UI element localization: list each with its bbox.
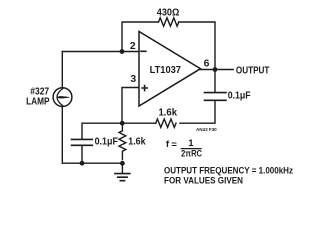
svg-text:2πRC: 2πRC	[181, 148, 202, 159]
lamp filament arc	[57, 89, 63, 106]
svg-text:LAMP: LAMP	[26, 97, 50, 108]
capacitor C2 0.1uF right plates	[205, 93, 227, 101]
wire node A to left cap	[82, 123, 122, 139]
ground bars	[115, 174, 130, 181]
resistor R 1.6k vertical zigzag	[119, 123, 126, 159]
lamp filament lens	[57, 96, 69, 98]
resistor R 1.6k horizontal zigzag	[156, 119, 176, 127]
wire feedback right to output node	[179, 22, 215, 67]
capacitor C1 0.1uF left plates	[72, 139, 93, 145]
wire pin3 stub	[122, 88, 139, 124]
svg-text:1.6k: 1.6k	[128, 136, 145, 147]
wire feedback left vertical	[122, 22, 159, 52]
svg-text:FOR VALUES GIVEN: FOR VALUES GIVEN	[164, 176, 243, 186]
svg-text:2: 2	[130, 41, 136, 52]
ground stub	[121, 163, 123, 173]
op-amp plus sign	[141, 85, 148, 92]
wire pin2 input	[62, 51, 139, 53]
svg-text:1.6k: 1.6k	[159, 107, 178, 118]
wire output node to right cap	[214, 70, 216, 92]
formula fraction bar	[181, 148, 202, 150]
svg-text:6: 6	[204, 58, 210, 69]
lamp #327 circle	[53, 88, 72, 107]
junction dot output node	[213, 67, 218, 72]
junction dot left cap bottom	[80, 161, 85, 166]
svg-text:LT1037: LT1037	[150, 65, 182, 76]
op-amp U1 triangle	[139, 32, 201, 107]
svg-text:#327: #327	[30, 86, 49, 97]
wire lamp bottom	[61, 106, 63, 163]
wire horizontal resistor to right cap	[180, 101, 215, 123]
svg-text:AN43 F30: AN43 F30	[196, 127, 217, 132]
resistor R 430 zigzag	[159, 18, 179, 26]
svg-text:3: 3	[130, 74, 136, 85]
junction dot pin2 node	[120, 49, 125, 54]
wire lamp top	[61, 52, 63, 88]
svg-text:OUTPUT: OUTPUT	[236, 66, 270, 77]
wire node A to horizontal resistor	[122, 122, 156, 124]
op-amp minus sign	[140, 50, 146, 52]
junction dot ground node	[120, 161, 125, 166]
junction dot node A	[120, 121, 125, 126]
svg-text:0.1μF: 0.1μF	[228, 91, 251, 102]
svg-text:OUTPUT FREQUENCY = 1.000kHz: OUTPUT FREQUENCY = 1.000kHz	[164, 166, 293, 176]
wire output	[201, 69, 234, 71]
wire bottom rail	[62, 162, 122, 164]
wire left cap bottom	[81, 146, 83, 163]
svg-text:430Ω: 430Ω	[157, 8, 180, 19]
svg-text:=: =	[171, 139, 177, 150]
svg-text:0.1μF: 0.1μF	[95, 136, 118, 147]
